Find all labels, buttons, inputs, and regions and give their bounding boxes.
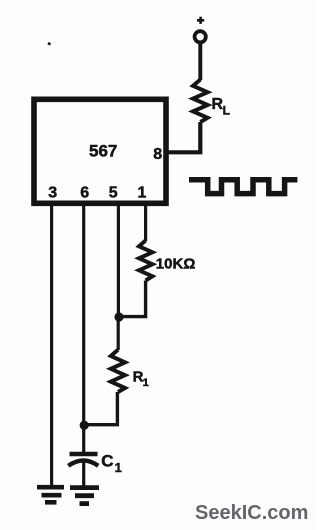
wire RL to pin 8 [166,122,200,152]
label C1 [101,452,122,475]
ground for C1 [70,488,99,504]
svg-text:L: L [223,104,230,118]
IC U1 567 tone decoder body [34,99,166,203]
wire pin 5 down to node A [117,205,120,314]
resistor R1 [111,350,125,392]
wire pin 6 down to node B and C1 [82,205,85,453]
output square wave symbol [189,180,297,194]
node B junction dot [80,421,89,430]
svg-text:3: 3 [48,185,57,202]
wire pin 3 to ground [50,205,53,487]
capacitor C1 top plate [70,452,98,456]
ground for pin 3 [37,487,64,502]
resistor 10KΩ [139,241,152,281]
positive supply terminal + [195,17,206,43]
svg-text:567: 567 [89,142,117,161]
wire C1 to ground [82,461,85,486]
resistor RL [193,80,208,123]
wire 10K resistor to node A [119,281,146,317]
svg-text:8: 8 [153,146,162,163]
svg-text:1: 1 [138,185,147,202]
svg-text:5: 5 [109,185,118,202]
wire node A to R1 [117,317,120,350]
label R1 [133,369,149,390]
wire supply terminal to RL [198,44,202,80]
wire pin 1 down to 10K resistor [144,205,147,241]
svg-text:6: 6 [80,185,89,202]
label RL [212,96,230,118]
svg-text:SeekIC.com: SeekIC.com [195,502,308,524]
wire R1 to node B [84,392,117,425]
svg-text:1: 1 [115,460,122,475]
svg-text:1: 1 [143,377,149,389]
node A junction dot [114,312,123,321]
svg-text:10KΩ: 10KΩ [156,256,196,273]
svg-text:C: C [101,452,113,471]
capacitor C1 curved plate [68,461,98,466]
